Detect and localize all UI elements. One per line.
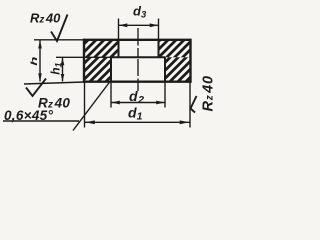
hatch upper-left block xyxy=(84,40,119,58)
hatch lower-left block xyxy=(84,57,111,81)
svg-text:Rz40: Rz40 xyxy=(201,75,217,111)
body bottom edge xyxy=(83,80,192,82)
d2 arrows xyxy=(111,101,120,105)
svg-text:Rz40: Rz40 xyxy=(30,11,61,26)
dimension h1 line xyxy=(62,58,64,82)
d3 extension lines xyxy=(118,19,120,40)
chamfer note underline xyxy=(3,120,79,122)
center line xyxy=(137,28,139,91)
d2 dimension line xyxy=(111,102,165,104)
lower hole left wall xyxy=(110,57,112,81)
upper hole left wall xyxy=(118,40,120,58)
dimension h line xyxy=(39,41,41,82)
extension line bottom (for h, h1, roughness) xyxy=(24,82,84,84)
d1 dimension line xyxy=(85,121,190,123)
d3 arrows xyxy=(119,23,128,27)
step edge xyxy=(111,56,165,58)
svg-text:h: h xyxy=(29,56,39,66)
roughness tick top-left xyxy=(51,15,68,42)
roughness tick lower-left xyxy=(26,79,46,97)
d3 dimension line xyxy=(119,24,159,26)
dimension h arrows xyxy=(38,40,42,48)
d2 extension lines xyxy=(110,82,112,108)
extension line top (for h) xyxy=(34,39,84,41)
hatch lower-right block xyxy=(165,57,190,81)
dimension h1 arrows xyxy=(61,58,65,66)
upper hole right wall xyxy=(158,40,160,58)
roughness tick right xyxy=(191,96,197,113)
d1 arrows xyxy=(86,120,95,124)
chamfer leader xyxy=(73,82,110,131)
body top edge xyxy=(83,39,192,41)
lower hole right wall xyxy=(164,57,166,81)
body right edge xyxy=(189,39,191,83)
d1 extension lines xyxy=(84,83,86,128)
extension line step (for h1) xyxy=(56,56,111,58)
hatch upper-right block xyxy=(159,40,191,58)
body left edge xyxy=(83,39,85,83)
